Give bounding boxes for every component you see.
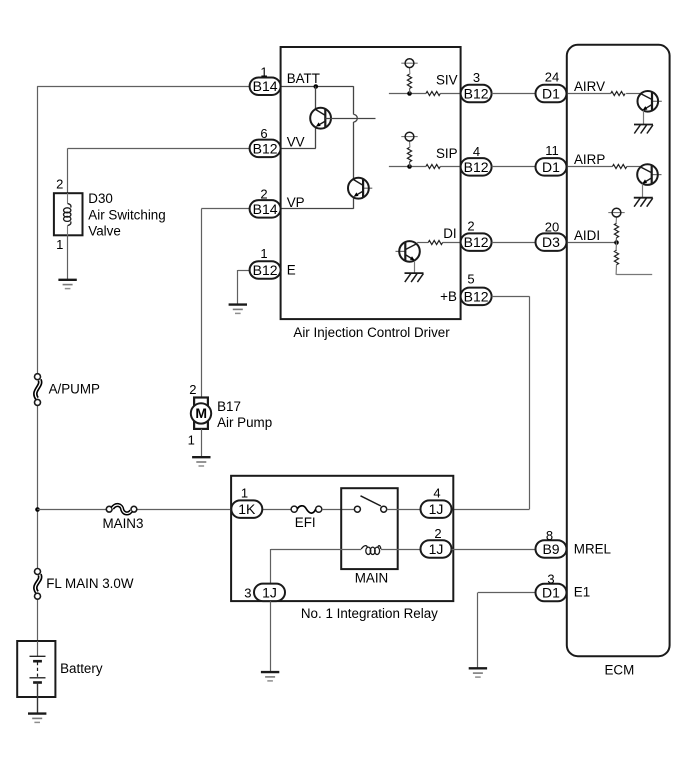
connector 1J pin3 xyxy=(254,584,285,602)
wire: D30 to ground xyxy=(67,235,69,279)
svg-text:D1: D1 xyxy=(542,86,560,102)
svg-text:AIDI: AIDI xyxy=(574,228,600,243)
svg-text:D1: D1 xyxy=(542,159,560,175)
svg-text:ECM: ECM xyxy=(605,663,635,678)
ground: battery xyxy=(28,714,46,723)
svg-text:No. 1 Integration Relay: No. 1 Integration Relay xyxy=(301,606,438,621)
svg-text:8: 8 xyxy=(546,528,553,543)
fuse MAIN3 xyxy=(106,505,137,513)
svg-text:SIP: SIP xyxy=(436,146,458,161)
svg-text:B17: B17 xyxy=(217,399,241,414)
svg-text:1: 1 xyxy=(241,486,248,501)
svg-text:2: 2 xyxy=(260,187,267,202)
connector B12 pin2 DI xyxy=(461,233,492,251)
ground: air pump xyxy=(192,457,210,466)
wire: VP run (air pump branch) xyxy=(201,208,249,210)
svg-text:4: 4 xyxy=(433,486,440,501)
svg-text:VV: VV xyxy=(287,135,305,150)
connector D1 pin3 E1 xyxy=(536,584,567,602)
node SIV internal circuit xyxy=(389,93,426,95)
connector B9 pin8 MREL xyxy=(536,540,567,558)
wire: switch to 1J pin4 xyxy=(387,509,421,511)
svg-text:B14: B14 xyxy=(253,201,278,217)
wire: VP internal xyxy=(281,208,354,210)
svg-text:3: 3 xyxy=(547,572,554,587)
svg-text:AIRV: AIRV xyxy=(574,79,605,94)
connector 1K pin1 xyxy=(231,500,262,518)
wire: E pin to ground xyxy=(238,270,250,272)
svg-text:SIV: SIV xyxy=(436,73,458,88)
battery xyxy=(17,641,55,697)
svg-text:3: 3 xyxy=(244,585,251,600)
svg-text:1: 1 xyxy=(188,432,195,447)
wire: Q1 base line xyxy=(325,118,375,120)
svg-text:DI: DI xyxy=(443,226,456,241)
box: Air Injection Control Driver xyxy=(281,47,461,319)
transistor Q2 (driver lower) xyxy=(348,178,372,199)
wire: BATT feed (bus to B14) xyxy=(37,86,249,88)
connector B12 pin5 +B xyxy=(461,288,492,306)
wire: VV run (D30 branch) xyxy=(68,148,250,150)
svg-text:2: 2 xyxy=(56,177,63,192)
wire: DI to ECM xyxy=(492,242,536,244)
transistor Q1 (driver upper) xyxy=(310,108,331,129)
svg-text:1: 1 xyxy=(260,64,267,79)
svg-text:M: M xyxy=(195,405,206,421)
junction: bus to MAIN3 xyxy=(35,507,40,512)
wire: +B to relay xyxy=(492,296,530,298)
svg-text:D30: D30 xyxy=(88,191,113,206)
svg-text:B12: B12 xyxy=(253,140,278,156)
wire: MAIN3 run xyxy=(37,509,106,511)
ground: Q4 chassis xyxy=(634,125,653,134)
wire: battery to ground xyxy=(37,697,39,714)
connector 1J pin2 xyxy=(421,540,452,558)
connector D3 pin20 AIDI xyxy=(536,233,567,251)
wire: Q4 emitter to ground xyxy=(643,110,645,124)
svg-text:D3: D3 xyxy=(542,234,560,250)
wire: 1K to EFI fuse xyxy=(263,509,292,511)
svg-text:2: 2 xyxy=(467,218,474,233)
svg-text:D1: D1 xyxy=(542,585,560,601)
ground: relay xyxy=(261,672,279,681)
svg-text:1J: 1J xyxy=(262,584,277,600)
box: MAIN relay internal xyxy=(341,488,398,569)
svg-text:B12: B12 xyxy=(464,288,489,304)
svg-text:2: 2 xyxy=(189,382,196,397)
svg-text:MREL: MREL xyxy=(574,542,611,557)
connector B12 pin6 VV xyxy=(250,140,281,158)
wire: DI internal xyxy=(417,242,428,244)
svg-text:6: 6 xyxy=(260,126,267,141)
switch: MAIN relay contacts xyxy=(354,496,386,512)
wire: coil left to 1J pin3 xyxy=(271,549,361,551)
svg-text:+B: +B xyxy=(440,289,457,304)
svg-text:MAIN: MAIN xyxy=(355,571,388,586)
connector B12 pin3 SIV xyxy=(461,85,492,103)
connector D1 pin11 AIRP xyxy=(536,158,567,176)
svg-text:2: 2 xyxy=(434,526,441,541)
wire: battery positive bus (vertical, left) xyxy=(37,86,39,374)
svg-text:11: 11 xyxy=(545,143,559,158)
fuse EFI xyxy=(291,506,322,513)
svg-text:E1: E1 xyxy=(574,585,590,600)
svg-text:Air Switching: Air Switching xyxy=(88,207,165,222)
svg-text:B9: B9 xyxy=(542,541,559,557)
connector 1J pin4 xyxy=(421,500,452,518)
wire: coil right to 1J pin2 xyxy=(381,549,421,551)
transistor Q4 (AIRV) xyxy=(638,91,662,112)
ground: Q3 chassis xyxy=(405,273,424,282)
svg-text:AIRP: AIRP xyxy=(574,152,605,167)
svg-text:B12: B12 xyxy=(253,262,278,278)
wire: SIP to ECM xyxy=(492,166,536,168)
wire: SIV to ECM xyxy=(492,93,536,95)
svg-text:A/PUMP: A/PUMP xyxy=(49,381,100,396)
node AIDI circuit in ECM xyxy=(567,242,616,244)
svg-text:4: 4 xyxy=(473,144,480,159)
wire: BATT to VP vertical with hop over Q1 base xyxy=(353,86,355,114)
svg-text:1: 1 xyxy=(260,246,267,261)
svg-text:5: 5 xyxy=(467,272,474,287)
ground: driver E xyxy=(229,305,247,314)
svg-text:1J: 1J xyxy=(429,541,444,557)
transistor Q3 (DI output) xyxy=(396,241,420,262)
wire: transistor Q1 emitter/collector verticals xyxy=(315,86,317,109)
connector B12 pin4 SIP xyxy=(461,158,492,176)
ground: E1 xyxy=(469,668,487,677)
svg-text:Battery: Battery xyxy=(60,661,103,676)
connector B14 pin1 BATT xyxy=(250,78,281,96)
svg-text:FL MAIN 3.0W: FL MAIN 3.0W xyxy=(46,576,134,591)
transistor Q5 (AIRP) xyxy=(637,164,661,185)
node AIRP circuit in ECM xyxy=(567,166,613,168)
svg-text:20: 20 xyxy=(545,220,559,235)
svg-text:1K: 1K xyxy=(238,501,256,517)
svg-text:B12: B12 xyxy=(464,159,489,175)
coil: MAIN relay xyxy=(361,546,381,555)
svg-text:Air Injection Control Driver: Air Injection Control Driver xyxy=(293,325,450,340)
valve D30 (Air Switching Valve) xyxy=(54,193,83,235)
svg-text:Air Pump: Air Pump xyxy=(217,415,272,430)
wire: VV internal xyxy=(281,148,316,150)
connector B14 pin2 VP xyxy=(250,200,281,218)
wire: BATT internal xyxy=(281,86,354,88)
node SIP internal circuit xyxy=(389,166,426,168)
svg-text:MAIN3: MAIN3 xyxy=(103,516,144,531)
svg-text:VP: VP xyxy=(287,195,305,210)
wire: MREL run xyxy=(452,549,536,551)
svg-text:BATT: BATT xyxy=(287,71,320,86)
svg-text:B12: B12 xyxy=(464,234,489,250)
connector D1 pin24 AIRV xyxy=(536,85,567,103)
wire: 1J pin3 to ground xyxy=(270,601,272,672)
svg-text:24: 24 xyxy=(545,70,559,85)
box: ECM xyxy=(567,45,670,656)
junction: BATT node xyxy=(314,84,319,89)
wire: air pump to ground xyxy=(201,429,203,457)
svg-text:E: E xyxy=(287,263,296,278)
svg-text:EFI: EFI xyxy=(295,515,316,530)
motor B17 (Air Pump) xyxy=(191,398,211,429)
fuse A/PUMP xyxy=(35,374,41,406)
wire: EFI to relay switch xyxy=(322,509,355,511)
box: No. 1 Integration Relay xyxy=(231,476,453,601)
node AIRV circuit in ECM xyxy=(567,93,611,95)
svg-text:Valve: Valve xyxy=(88,224,121,239)
svg-text:3: 3 xyxy=(473,70,480,85)
svg-text:B12: B12 xyxy=(464,86,489,102)
wire: Q5 emitter to ground xyxy=(642,184,644,198)
ground: Q5 chassis xyxy=(634,198,653,207)
ground: D30 xyxy=(58,280,76,289)
svg-text:1J: 1J xyxy=(429,501,444,517)
fuse FL MAIN 3.0W xyxy=(35,569,41,600)
connector B12 pin1 E xyxy=(250,261,281,279)
wire: E1 to ground xyxy=(478,592,536,594)
wire: Q3 emitter to ground xyxy=(414,261,416,273)
svg-text:1: 1 xyxy=(56,237,63,252)
svg-text:B14: B14 xyxy=(253,78,278,94)
